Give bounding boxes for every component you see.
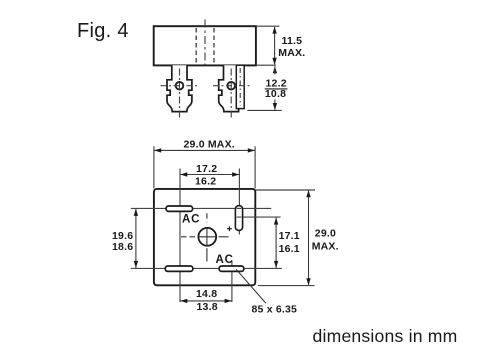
svg-text:13.8: 13.8	[197, 301, 218, 313]
rear tab centerline	[239, 68, 241, 106]
extension line body bottom right	[256, 64, 276, 66]
arrow down 10.8	[273, 103, 277, 110]
slot terminal bottom-left	[165, 266, 193, 271]
dimension 29.0 MAX right: extension top	[256, 189, 316, 191]
slot terminal bottom-right	[219, 266, 244, 271]
arrow down 11.5	[272, 58, 276, 65]
left terminal hole	[176, 82, 184, 90]
svg-text:16.2: 16.2	[195, 175, 216, 187]
dimension stub 10.8 bottom	[274, 100, 276, 110]
svg-text:MAX.: MAX.	[278, 47, 305, 59]
svg-text:17.1: 17.1	[279, 230, 300, 242]
long vertical extension line left slots center	[179, 169, 181, 303]
body outline (side view)	[154, 26, 256, 65]
dimension line 29.0 MAX top	[154, 149, 255, 151]
hole centerline vertical	[206, 213, 208, 222]
dimension line 19.6/18.6 left	[135, 209, 137, 268]
svg-text:29.0 MAX.: 29.0 MAX.	[184, 139, 235, 151]
right terminal hole	[227, 82, 235, 90]
arrow right 17.2	[232, 172, 239, 176]
slot terminal top-right (plus, vertical)	[235, 206, 242, 231]
arrow down 16.1	[274, 261, 278, 268]
slot terminal top-left	[166, 206, 193, 211]
right terminal (side view)	[219, 65, 244, 111]
arrow left 14.8	[180, 299, 187, 303]
dimension line 17.1/16.1	[275, 218, 277, 268]
fraction bar 12.2/10.8	[265, 88, 288, 90]
dimension 29.0 MAX right: extension bottom	[258, 285, 315, 287]
long horizontal centerline top slots	[131, 207, 271, 209]
dimension line 14.8/13.8	[180, 300, 232, 302]
arrow down 18.6	[134, 261, 138, 268]
left terminal crosshair horizontal	[161, 85, 200, 87]
center mounting hole	[198, 228, 216, 246]
hole centerline horizontal	[181, 236, 196, 238]
dimension 29.0 MAX top: extension right	[254, 146, 256, 188]
svg-text:17.2: 17.2	[196, 163, 217, 175]
dimension line 17.2/16.2	[180, 174, 239, 176]
dimension stub 12.2 top	[274, 66, 276, 74]
arrow right 29.0 top	[248, 148, 255, 152]
arrow up 17.1	[274, 218, 278, 225]
crossing line inside plus-slot (center)	[237, 216, 242, 218]
svg-text:Fig. 4: Fig. 4	[77, 20, 129, 42]
right terminal crosshair horizontal	[213, 85, 251, 87]
right terminal centerline vertical	[230, 69, 232, 120]
svg-text:11.5: 11.5	[282, 35, 303, 47]
svg-text:AC: AC	[216, 254, 234, 266]
svg-text:dimensions in mm: dimensions in mm	[313, 326, 458, 346]
vertical extension line bottom-right slot center	[231, 261, 233, 302]
hidden hole edge left (dashed)	[195, 28, 197, 64]
svg-text:85 x 6.35: 85 x 6.35	[252, 304, 298, 316]
left terminal centerline vertical	[179, 69, 181, 120]
arrow down 29.0 right	[306, 278, 310, 285]
arrow up 29.0 right	[306, 190, 310, 197]
arrow left 29.0 top	[154, 148, 161, 152]
extension line body top right	[256, 25, 279, 27]
svg-text:MAX.: MAX.	[312, 240, 339, 252]
left terminal (side view)	[167, 65, 192, 111]
plus sign	[227, 228, 232, 230]
arrow right 13.8	[225, 299, 232, 303]
svg-text:14.8: 14.8	[196, 288, 217, 300]
body centerline	[204, 20, 206, 65]
svg-text:AC: AC	[182, 214, 200, 226]
arrow left 17.2	[180, 172, 187, 176]
extension line plus-slot center to right	[238, 216, 281, 218]
svg-text:18.6: 18.6	[112, 241, 133, 253]
long horizontal centerline bottom slots	[131, 267, 282, 269]
svg-text:16.1: 16.1	[279, 243, 300, 255]
svg-text:10.8: 10.8	[265, 88, 286, 100]
arrow up 11.5	[272, 27, 276, 34]
svg-text:29.0: 29.0	[315, 227, 336, 239]
crossing line inside plus-slot (top)	[237, 207, 242, 209]
hidden hole edge right (dashed)	[213, 28, 215, 64]
leader line 85 x 6.35	[236, 269, 266, 303]
dimension line 29.0 MAX right	[308, 191, 310, 286]
arrow up 12.2	[273, 66, 277, 73]
rear tab (edge view)	[236, 65, 244, 108]
arrow up 19.6	[134, 209, 138, 216]
vertical extension line plus-slot center	[238, 169, 240, 235]
dimension 29.0 MAX top: extension left	[153, 146, 155, 188]
plan view square body	[154, 189, 255, 285]
dimension line 11.5	[274, 27, 276, 64]
extension line lead tips	[247, 109, 281, 111]
